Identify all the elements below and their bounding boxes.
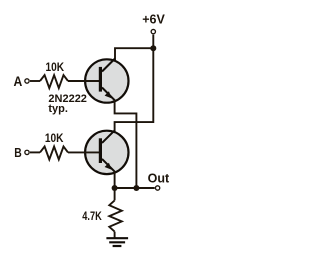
- terminal Out: [155, 186, 159, 190]
- wire Out line: [115, 187, 155, 189]
- wire Q1 emitter to Out line: [115, 100, 137, 188]
- label +6V net: [142, 12, 165, 26]
- svg-text:+6V: +6V: [142, 12, 165, 26]
- svg-text:A: A: [14, 73, 23, 89]
- svg-text:4.7K: 4.7K: [82, 209, 102, 223]
- transistor Q1 emitter lead with arrow: [102, 88, 115, 101]
- transistor Q2 collector lead: [102, 130, 115, 143]
- label 2N2222: [48, 93, 87, 105]
- ground: [106, 238, 128, 246]
- wire resistor 4.7K to ground: [114, 232, 116, 239]
- wire A terminal to resistor: [30, 80, 40, 82]
- label 10K (input B resistor): [45, 131, 64, 145]
- svg-text:typ.: typ.: [48, 103, 68, 115]
- svg-text:10K: 10K: [46, 60, 65, 74]
- terminal input A: [25, 79, 29, 83]
- label Out: [148, 172, 170, 186]
- transistor Q1 collector lead: [102, 59, 115, 72]
- label 10K (input A resistor): [46, 60, 65, 74]
- svg-text:B: B: [14, 146, 22, 160]
- transistor Q1 2N2222 body: [85, 59, 128, 102]
- label B: [14, 146, 22, 160]
- wire resistor A to Q1 base: [68, 80, 101, 82]
- transistor Q2 emitter lead with arrow: [102, 159, 115, 172]
- junction Q1 emitter on Out line: [133, 185, 139, 191]
- junction Q2 emitter / resistor node: [112, 185, 118, 191]
- transistor Q2 body: [85, 131, 128, 174]
- wire Q2 emitter down to Out line: [114, 172, 116, 189]
- resistor 10K (input B): [40, 147, 68, 160]
- wire +6V terminal to junction: [152, 35, 154, 49]
- terminal +6V: [151, 29, 155, 33]
- transistor Q1 base bar: [99, 67, 102, 92]
- svg-text:Out: Out: [148, 172, 170, 186]
- svg-text:10K: 10K: [45, 131, 64, 145]
- label typ.: [48, 103, 68, 115]
- resistor 10K (input A): [40, 75, 68, 88]
- junction +6V node: [150, 45, 156, 51]
- transistor Q2 base bar: [99, 138, 102, 163]
- wire resistor B to Q2 base: [68, 151, 101, 153]
- label A: [14, 73, 23, 89]
- terminal input B: [25, 150, 29, 154]
- resistor 4.7K: [109, 200, 122, 231]
- wire B terminal to resistor: [30, 151, 40, 153]
- label 4.7K: [82, 209, 102, 223]
- wire +6V rail down to Q2 collector: [115, 48, 154, 131]
- wire Q1 collector to +6V junction: [115, 48, 153, 60]
- wire Out junction down to resistor 4.7K: [114, 188, 116, 200]
